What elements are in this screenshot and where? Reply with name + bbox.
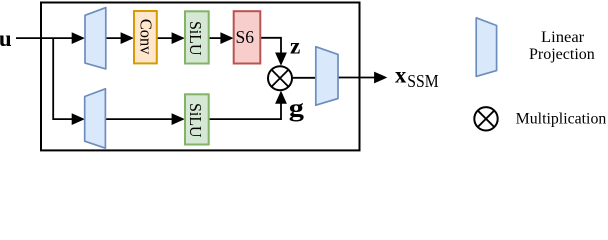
svg-text:z: z xyxy=(290,33,300,59)
svg-text:Multiplication: Multiplication xyxy=(516,110,607,127)
svg-text:SiLU: SiLU xyxy=(186,103,205,138)
svg-text:Conv: Conv xyxy=(136,19,155,55)
svg-text:S6: S6 xyxy=(236,27,255,47)
svg-text:g: g xyxy=(289,95,305,122)
svg-text:Linear: Linear xyxy=(541,29,584,46)
svg-text:x: x xyxy=(395,63,407,88)
svg-text:Projection: Projection xyxy=(529,46,595,63)
svg-text:SiLU: SiLU xyxy=(186,21,205,56)
svg-text:SSM: SSM xyxy=(407,71,438,91)
svg-text:u: u xyxy=(0,26,12,51)
